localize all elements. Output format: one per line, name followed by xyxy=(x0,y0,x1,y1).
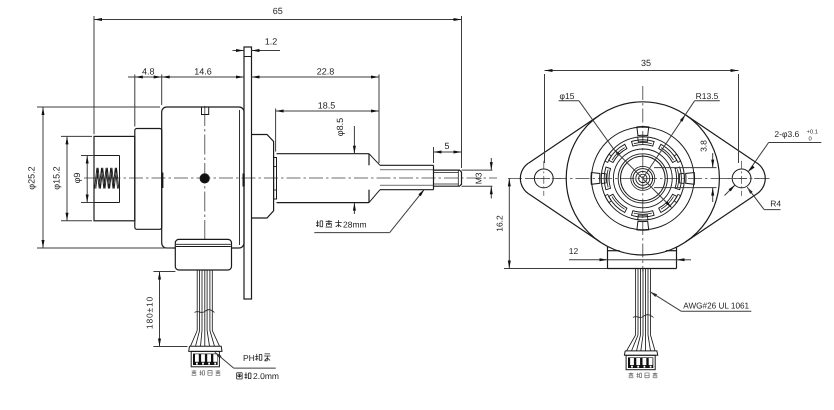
rear end cap 4.8 xyxy=(135,129,162,230)
svg-text:φ15.2: φ15.2 xyxy=(52,166,62,189)
taper tube-to-screw xyxy=(369,154,380,166)
front bearing tube phi8.5 xyxy=(277,153,370,155)
motor can outer circle R13.5 xyxy=(566,102,719,255)
dim 12 housing width xyxy=(569,259,608,261)
left-view vertical axis centerline xyxy=(204,106,206,270)
flange outline (ears + tangents), front view xyxy=(529,115,600,163)
dim phi9 vertical xyxy=(81,155,94,157)
stator concentric circles xyxy=(639,174,647,182)
svg-text:PH: PH xyxy=(243,353,255,363)
svg-text:2-φ3.6: 2-φ3.6 xyxy=(774,129,799,139)
svg-text:22.8: 22.8 xyxy=(317,67,335,77)
svg-text:5: 5 xyxy=(444,141,449,151)
svg-text:R13.5: R13.5 xyxy=(696,91,719,101)
svg-text:4.8: 4.8 xyxy=(142,67,155,77)
svg-text:φ9: φ9 xyxy=(72,173,82,184)
dim 35 hole distance xyxy=(544,74,546,163)
label pitch 2.0mm xyxy=(237,373,242,379)
svg-text:12: 12 xyxy=(569,246,579,256)
dim 5 tip length xyxy=(433,147,435,163)
svg-text:14.6: 14.6 xyxy=(194,67,212,77)
lead screw xyxy=(380,164,434,166)
svg-text:0: 0 xyxy=(809,136,812,143)
flange plate notch line top xyxy=(244,56,252,58)
dim 14.6 xyxy=(162,76,244,78)
PH connector left view xyxy=(189,346,222,351)
label phi15 with leader and arrows xyxy=(559,100,579,102)
svg-text:AWG#26 UL 1061: AWG#26 UL 1061 xyxy=(683,300,749,310)
dim 1.2 flange thickness xyxy=(233,50,245,52)
svg-text:R4: R4 xyxy=(770,199,781,209)
svg-text:180±10: 180±10 xyxy=(144,296,154,329)
label PH terminal with leader xyxy=(215,352,222,358)
dim M3 xyxy=(462,169,493,171)
can crimp inner line right xyxy=(239,110,241,245)
rear bushing phi15.2 xyxy=(94,136,135,220)
svg-text:35: 35 xyxy=(641,58,651,68)
stator slots (8 arc slots) xyxy=(675,167,681,190)
dim 16.2 xyxy=(504,268,677,270)
dim 3.8 screw diameter xyxy=(654,167,717,169)
wire color label yellow-red-white-blue left xyxy=(192,370,197,375)
wire fan-out to connector xyxy=(191,331,198,347)
dim phi8.5 vertical xyxy=(353,126,355,154)
svg-text:1.2: 1.2 xyxy=(265,37,278,47)
label rail length 28mm with leader xyxy=(314,232,389,234)
cardinal small rects between slot ring and phi15 circle xyxy=(679,173,684,183)
svg-text:+0.1: +0.1 xyxy=(807,129,818,136)
dim 4.8 xyxy=(134,75,136,127)
M3 tip xyxy=(434,170,462,186)
motor main body 14.6 xyxy=(162,107,244,248)
dim 180 +/-10 wire length xyxy=(153,271,175,273)
right-view horizontal centerline xyxy=(508,177,770,179)
label 2-phi3.6 with tolerance and leader through hole xyxy=(769,142,822,144)
svg-text:M3: M3 xyxy=(474,172,484,184)
wire tie right xyxy=(633,315,654,318)
can crimp tabs at cardinal points xyxy=(686,173,695,185)
dim 65 overall xyxy=(93,16,95,134)
center black dot xyxy=(200,174,209,183)
svg-text:2.0mm: 2.0mm xyxy=(253,371,279,381)
PH connector right view xyxy=(624,351,657,355)
dim phi25.2 vertical xyxy=(37,106,160,108)
svg-text:φ15: φ15 xyxy=(560,91,575,101)
lead wires bundle right view xyxy=(635,269,637,336)
lead screw thread seen in phi9 hole (zigzag) xyxy=(95,168,118,189)
pole notches at slot ends near horizontal axis xyxy=(674,194,681,202)
svg-text:18.5: 18.5 xyxy=(318,101,336,111)
bearing mark right edge xyxy=(243,174,245,187)
dim phi15.2 vertical xyxy=(61,135,92,137)
mounting hole right phi3.6 xyxy=(732,169,751,188)
terminal housing side view xyxy=(175,239,231,270)
svg-text:65: 65 xyxy=(273,6,283,16)
wire fan-out right xyxy=(627,335,636,351)
front boss xyxy=(252,135,274,219)
svg-text:28mm: 28mm xyxy=(343,219,367,229)
phi9 counterbore hole xyxy=(94,155,120,157)
label R13.5 with leader xyxy=(695,100,720,102)
left-view horizontal centerline xyxy=(84,177,497,179)
label AWG#26 UL 1061 with leader xyxy=(650,292,657,297)
svg-text:φ8.5: φ8.5 xyxy=(335,118,345,136)
right-view vertical centerline xyxy=(642,86,644,272)
dim 18.5 xyxy=(275,109,277,152)
bearing mark left edge xyxy=(161,173,163,189)
top tab on motor body xyxy=(202,107,209,115)
svg-text:16.2: 16.2 xyxy=(495,215,505,232)
svg-text:φ25.2: φ25.2 xyxy=(27,166,37,189)
wire tie xyxy=(195,310,215,313)
dim 22.8 xyxy=(252,76,380,78)
lead wires bundle left view xyxy=(196,270,198,331)
mounting flange plate 1.2 side view xyxy=(244,47,252,299)
mounting hole left phi3.6 xyxy=(534,169,553,188)
label R4 with leader xyxy=(747,187,752,194)
front step ring xyxy=(274,158,277,200)
terminal housing front view xyxy=(607,246,609,269)
svg-text:3.8: 3.8 xyxy=(699,140,709,152)
wire color label yellow-red-white-blue right xyxy=(629,373,634,378)
